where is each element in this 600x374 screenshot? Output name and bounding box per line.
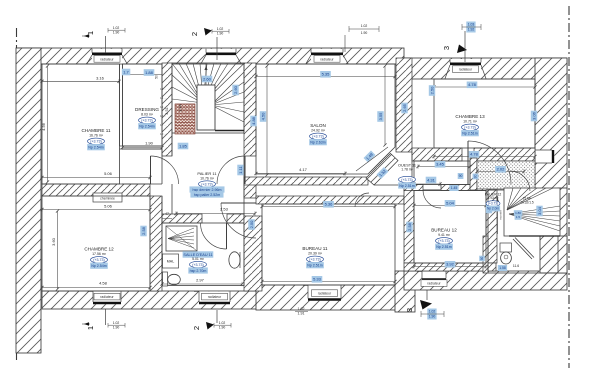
dim 5.36 bureau11 top <box>262 206 395 208</box>
dim 2.58 vert b12r <box>486 203 492 214</box>
svg-text:CHAMBRE 13: CHAMBRE 13 <box>455 114 485 119</box>
dim 1.88 blue <box>144 69 155 76</box>
svg-text:2.65: 2.65 <box>402 103 407 112</box>
svg-text:Np 2.51m: Np 2.51m <box>462 132 478 136</box>
svg-text:3.51: 3.51 <box>165 107 169 114</box>
svg-text:2.58: 2.58 <box>141 226 146 235</box>
dim 3.60 vert <box>51 237 56 246</box>
svg-text:radiateur: radiateur <box>100 295 114 299</box>
svg-text:1.02: 1.02 <box>219 321 226 325</box>
dim 2.53 palier <box>176 213 255 215</box>
dim 5.06 chambre11 <box>42 177 150 179</box>
exterior wall bottom band C <box>404 271 567 290</box>
svg-text:90: 90 <box>459 174 463 178</box>
dim 3.92 bureau12 <box>414 266 486 268</box>
svg-text:PALIER 11: PALIER 11 <box>197 171 217 176</box>
dim 3.44 vert <box>178 104 182 111</box>
svg-text:radiateur: radiateur <box>208 295 222 299</box>
shower <box>166 226 197 251</box>
window bottom 4 (radiateur) <box>422 271 446 280</box>
dim 4.78 chambre13 bottom <box>434 156 535 158</box>
svg-text:3: 3 <box>442 46 451 50</box>
svg-text:BUREAU 12: BUREAU 12 <box>431 228 457 233</box>
dim 3.45 corridor <box>418 166 470 168</box>
svg-text:50: 50 <box>155 75 159 79</box>
wall dressing bottom (thin) <box>120 145 163 147</box>
svg-text:2: 2 <box>192 326 201 330</box>
dim 2.60a <box>202 76 213 83</box>
dim 4.31 <box>414 183 440 185</box>
svg-text:2.50: 2.50 <box>429 86 434 95</box>
dim 3.04 vert right <box>536 206 542 217</box>
svg-text:Np 2.63m: Np 2.63m <box>310 141 326 145</box>
wall bureau11 top <box>256 196 404 204</box>
svg-text:(+3.73): (+3.73) <box>141 119 153 123</box>
wall bureau12 left <box>404 190 414 263</box>
door chambre 12 <box>150 156 152 184</box>
svg-text:15 ··: 15 ·· <box>160 87 166 91</box>
svg-text:1.02: 1.02 <box>113 321 120 325</box>
room chambre 13 outline <box>434 79 535 148</box>
stair lower flight (red treads) <box>175 104 195 134</box>
svg-text:hsp dernier 2.96m: hsp dernier 2.96m <box>193 188 222 192</box>
section marker 1 bottom <box>86 326 95 330</box>
dim 1.58 wc <box>498 265 507 271</box>
svg-text:radiateur: radiateur <box>459 68 473 72</box>
dim 3.55 vert salon <box>377 111 383 122</box>
svg-text:Np 2.51m: Np 2.51m <box>436 245 452 249</box>
svg-text:16.76 m²: 16.76 m² <box>89 134 104 138</box>
svg-text:90: 90 <box>480 257 484 261</box>
window right (chambre 13) <box>535 150 554 163</box>
exterior wall top-left band <box>18 48 404 64</box>
svg-text:Np 2.51m: Np 2.51m <box>307 264 323 268</box>
room palier outline <box>162 133 244 223</box>
dim 3.51 vert <box>165 107 169 114</box>
svg-text:(+3.73): (+3.73) <box>90 140 102 144</box>
svg-text:hsp palier 2.52m: hsp palier 2.52m <box>194 193 221 197</box>
svg-text:1.90: 1.90 <box>113 326 120 330</box>
svg-text:4.17: 4.17 <box>299 167 308 172</box>
window bottom 2 (radiateur) <box>199 291 230 304</box>
svg-text:(+3.73): (+3.73) <box>312 135 324 139</box>
exterior wall left band <box>16 48 41 353</box>
svg-text:3: 3 <box>405 308 414 312</box>
door bureau 12 <box>423 189 441 191</box>
svg-text:4.56: 4.56 <box>41 122 46 131</box>
dim 1.49 diag <box>363 150 375 162</box>
tiled bathroom floor (stipple) <box>477 161 535 189</box>
room dressing outline <box>123 64 163 146</box>
room chambre 11 outline <box>42 64 120 184</box>
property line left (dash-dot) <box>16 28 18 362</box>
dim 4.58 chambre12 <box>42 287 150 289</box>
dim 1.11 vert <box>237 165 243 176</box>
dim line dressing top <box>123 74 163 76</box>
stair landing edge <box>215 130 244 132</box>
svg-text:24.92 m²: 24.92 m² <box>311 129 326 133</box>
svg-text:20.39 m²: 20.39 m² <box>308 252 323 256</box>
svg-text:4.88: 4.88 <box>251 116 256 125</box>
wall salon chamfer (diagonal) <box>366 154 398 186</box>
dim 4.78 chambre13 top <box>434 86 535 88</box>
door salle d'eau <box>226 223 228 249</box>
room label salle d'eau <box>183 251 214 257</box>
stair winder treads (fan) <box>172 64 203 104</box>
svg-text:MAL: MAL <box>167 260 174 264</box>
room stairwell outline <box>172 63 244 133</box>
exterior wall right lower band <box>558 188 567 273</box>
svg-text:1.90: 1.90 <box>361 31 368 35</box>
svg-text:5.06: 5.06 <box>104 171 113 176</box>
exterior wall bottom step <box>395 271 415 312</box>
window top 1 (radiateur) <box>92 49 122 64</box>
svg-text:1.7: 1.7 <box>123 69 129 74</box>
washbasin <box>229 252 240 268</box>
dim 1.7 blue <box>122 69 131 76</box>
section marker 2 top <box>190 32 199 36</box>
section marker 3 bottom <box>405 308 414 312</box>
svg-text:3.45: 3.45 <box>436 162 445 167</box>
svg-text:2.02: 2.02 <box>497 167 506 172</box>
dim 3.16 <box>42 80 119 82</box>
svg-text:4.78: 4.78 <box>470 152 479 157</box>
wc 2 diagonal partition <box>513 239 532 259</box>
wall palier-salon lower stub <box>244 184 256 198</box>
svg-text:2.50: 2.50 <box>249 220 254 229</box>
wall bureau12 top seg A <box>404 185 423 191</box>
svg-text:2.97: 2.97 <box>196 278 205 283</box>
exterior wall right thick band <box>535 58 567 190</box>
svg-text:1.02: 1.02 <box>217 27 224 31</box>
svg-text:1.90: 1.90 <box>217 32 224 36</box>
svg-text:10.76 m²: 10.76 m² <box>200 177 215 181</box>
svg-text:5.33: 5.33 <box>313 277 322 282</box>
svg-text:1.02: 1.02 <box>298 307 305 311</box>
svg-text:8.03 m²: 8.03 m² <box>141 113 154 117</box>
svg-text:5.01 m²: 5.01 m² <box>192 257 205 261</box>
svg-text:2.58: 2.58 <box>407 222 412 231</box>
dim 1.80 stair <box>514 210 523 216</box>
room chambre 12 outline <box>42 196 150 291</box>
svg-text:3.04: 3.04 <box>537 206 542 215</box>
svg-text:5.06: 5.06 <box>104 204 113 209</box>
svg-text:radiateur: radiateur <box>320 57 334 61</box>
svg-text:5.04: 5.04 <box>446 201 455 206</box>
svg-text:Np 2.0m: Np 2.0m <box>487 207 499 211</box>
svg-text:19.32/1.5: 19.32/1.5 <box>520 201 534 205</box>
svg-text:hsp 2.70m: hsp 2.70m <box>190 269 207 273</box>
dim 1.52 diag <box>376 167 388 179</box>
svg-text:14 ··: 14 ·· <box>160 96 166 100</box>
dim 90 vert wc <box>479 256 485 262</box>
chimney breast (cheminee) <box>93 193 122 202</box>
wall bureau12 top seg B <box>441 185 496 191</box>
svg-text:30: 30 <box>474 175 478 179</box>
dim line chambre12 vert <box>57 211 59 289</box>
window top 4 (radiateur) <box>450 59 481 79</box>
svg-text:2: 2 <box>190 32 199 36</box>
window bottom 3 (radiateur) <box>308 285 341 300</box>
exterior wall bottom band B <box>256 285 404 310</box>
svg-text:5.35: 5.35 <box>322 72 331 77</box>
svg-text:BUREAU 11: BUREAU 11 <box>302 246 328 251</box>
svg-text:DRESSING: DRESSING <box>135 107 159 112</box>
svg-text:1.88: 1.88 <box>145 70 154 75</box>
svg-text:1.78 m²: 1.78 m² <box>401 168 413 172</box>
dim 5.33 bureau11 bottom <box>262 281 395 283</box>
room salle d'eau outline <box>162 223 244 286</box>
svg-text:1: 1 <box>86 326 95 330</box>
door bathroom 2 inner <box>510 171 530 191</box>
dim 2.50 vert bath <box>248 219 254 230</box>
room corridor bath outline <box>414 161 470 185</box>
exterior wall top-right band <box>404 58 567 79</box>
svg-text:(+3.73): (+3.73) <box>464 126 476 130</box>
wall bureau12 right / palier12 <box>486 190 497 263</box>
dim 2.65 vert wall <box>401 103 407 114</box>
wc 2 (right) <box>500 243 512 252</box>
dim 4.88 vert <box>250 116 256 127</box>
svg-text:3.55: 3.55 <box>378 112 383 121</box>
stair ESC 11 (right winder) <box>504 188 560 236</box>
room bureau 11 outline <box>262 204 395 285</box>
dim 2.58 vert bath left <box>140 226 146 237</box>
svg-text:(+3.73): (+3.73) <box>201 182 213 186</box>
svg-text:10 ··: 10 ·· <box>160 132 166 136</box>
dim 1.45 <box>449 185 458 191</box>
stair newel void <box>197 85 215 130</box>
dim 3.06 vert ch13 <box>531 111 537 122</box>
wall chambre13 bottom seg A <box>412 148 462 161</box>
dim 15 stair <box>515 214 522 220</box>
section marker 1 top <box>86 31 95 35</box>
svg-text:1.02: 1.02 <box>361 24 368 28</box>
wall bath top seg A <box>162 214 202 223</box>
wall dressing left (thin) <box>119 64 121 146</box>
svg-text:radiateur: radiateur <box>318 292 332 296</box>
svg-text:SALON: SALON <box>310 123 326 128</box>
svg-text:1.58: 1.58 <box>499 266 506 270</box>
door bathroom 2 / chambre13 <box>467 141 469 184</box>
svg-text:4.50: 4.50 <box>260 112 265 121</box>
svg-text:11.6: 11.6 <box>513 264 519 268</box>
svg-text:1.90: 1.90 <box>145 141 154 146</box>
svg-text:(+3.73): (+3.73) <box>488 202 498 206</box>
svg-text:1.92: 1.92 <box>468 28 475 32</box>
wall bath2 right vertical <box>470 158 477 190</box>
svg-text:radiateur: radiateur <box>427 282 441 286</box>
dim 2.97 bath <box>162 283 242 285</box>
dim 5.04 bureau12 <box>414 205 486 207</box>
room salon outline <box>256 64 395 174</box>
svg-text:3.60: 3.60 <box>51 237 56 246</box>
room ouest 11 outline <box>374 152 412 190</box>
svg-text:1.02: 1.02 <box>429 310 436 314</box>
svg-text:1.91: 1.91 <box>298 312 305 316</box>
dim 4.56 vert <box>41 122 46 131</box>
dim 5.35 salon <box>256 76 395 78</box>
svg-text:1.93 m²: 1.93 m² <box>488 196 499 200</box>
wc 1 <box>163 272 168 286</box>
svg-text:radiateur: radiateur <box>100 57 114 61</box>
dim 2.58 vert b12l <box>406 222 412 233</box>
svg-text:11 ··: 11 ·· <box>160 123 166 127</box>
svg-text:4.31: 4.31 <box>427 177 436 182</box>
wall stairwell left <box>162 63 172 156</box>
dim 1.90 dressing <box>123 147 163 149</box>
wall bath top seg B <box>227 214 244 223</box>
svg-text:4.78: 4.78 <box>468 82 477 87</box>
svg-text:1.90: 1.90 <box>429 315 436 319</box>
dim 2.60b vert <box>232 85 238 96</box>
svg-text:17.56 m²: 17.56 m² <box>92 252 107 256</box>
room bureau 12 outline <box>414 191 486 264</box>
dim 90a <box>458 173 464 179</box>
dim 1.85 <box>178 143 189 150</box>
svg-text:3.16: 3.16 <box>96 76 105 81</box>
svg-text:1.02: 1.02 <box>113 26 120 30</box>
wall chambre11-chambre12 <box>42 184 150 196</box>
wall stairwell right / palier-salon <box>244 63 256 156</box>
svg-text:(+3.73): (+3.73) <box>309 258 321 262</box>
svg-text:1.5: 1.5 <box>516 215 521 219</box>
svg-text:10.71 m²: 10.71 m² <box>463 120 478 124</box>
svg-text:(+3.73): (+3.73) <box>438 239 450 243</box>
svg-text:1.45: 1.45 <box>451 186 458 190</box>
svg-text:2.60: 2.60 <box>203 76 212 81</box>
exterior wall corner WC <box>540 236 567 273</box>
washing machine MAL <box>163 254 179 268</box>
svg-text:3.44: 3.44 <box>178 104 182 111</box>
dim 3.40 vert <box>155 75 159 79</box>
svg-text:(+3.73): (+3.73) <box>192 263 204 267</box>
window top 2 (stair window) <box>206 49 236 64</box>
wall salon right <box>396 58 412 152</box>
door salon <box>244 156 246 184</box>
dim line salon right vert <box>384 66 386 145</box>
svg-text:Np 2.54m: Np 2.54m <box>139 125 155 129</box>
wall salon bottom <box>244 177 368 185</box>
stair up-line (montee) <box>497 196 499 234</box>
door bureau 11 <box>221 202 256 204</box>
wall chambre13 bottom seg B <box>474 148 535 161</box>
door ouest-bureau11 <box>355 193 369 207</box>
dim 30 vert <box>473 174 479 180</box>
dim line salon left vert <box>266 66 268 175</box>
svg-text:2.60: 2.60 <box>233 85 238 94</box>
property line right (dash-dot) <box>568 6 570 368</box>
exterior wall bottom band A <box>42 291 260 309</box>
room palier 12 / wc outline <box>488 190 558 273</box>
dim 2.50 vert ch13 <box>429 85 435 96</box>
svg-text:1.03: 1.03 <box>468 23 475 27</box>
dim 4.50 vert salon <box>260 111 266 122</box>
wall bath left <box>150 196 162 291</box>
svg-text:9.41 m²: 9.41 m² <box>438 233 451 237</box>
section marker 3 top <box>442 46 451 50</box>
svg-text:1.11: 1.11 <box>238 165 243 173</box>
svg-text:4.58: 4.58 <box>99 281 108 286</box>
svg-text:3.92: 3.92 <box>446 262 455 267</box>
svg-text:47: 47 <box>165 212 169 216</box>
window bottom 1 (radiateur) <box>93 291 121 304</box>
diag dim line <box>356 147 388 171</box>
svg-text:CHAMBRE 12: CHAMBRE 12 <box>84 247 114 252</box>
svg-text:(+3.73): (+3.73) <box>401 178 413 182</box>
dim 2.02 bath2 <box>477 171 524 173</box>
section marker 2 bottom <box>192 326 201 330</box>
svg-text:CHAMBRE 11: CHAMBRE 11 <box>81 128 110 133</box>
wall bath right / bureau11 left <box>244 216 262 291</box>
svg-text:1: 1 <box>86 31 95 35</box>
dim 5.06 chambre12 <box>42 209 150 211</box>
wall bureau12 bottom <box>404 263 496 271</box>
svg-text:Np 2.54m: Np 2.54m <box>88 146 104 150</box>
svg-text:5.36: 5.36 <box>325 202 334 207</box>
svg-text:1.90: 1.90 <box>113 31 120 35</box>
svg-text:cheminée: cheminée <box>100 197 115 201</box>
svg-text:Np 2.54m: Np 2.54m <box>91 264 107 268</box>
svg-text:(+3.73): (+3.73) <box>93 258 105 262</box>
dim 4.17 salon <box>256 173 345 175</box>
svg-text:Np 2.51m: Np 2.51m <box>399 184 415 188</box>
svg-text:3.06: 3.06 <box>531 111 536 120</box>
svg-text:2.53: 2.53 <box>220 207 229 212</box>
wall wc right bottom <box>483 236 488 273</box>
svg-text:1.85: 1.85 <box>179 143 188 148</box>
window top 3 (radiateur) <box>311 49 343 64</box>
svg-text:1.90: 1.90 <box>219 326 226 330</box>
